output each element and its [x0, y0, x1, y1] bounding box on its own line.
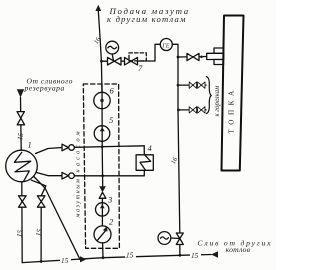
- wire bottom main: [22, 255, 211, 263]
- gauge G2 wave: [160, 237, 168, 239]
- svg-text:к другим котлам: к другим котлам: [107, 14, 187, 24]
- wire branch A: [178, 84, 206, 86]
- arrow discharge up: [95, 5, 101, 11]
- svg-text:2: 2: [109, 217, 114, 227]
- arrow bottom right-pointing: [80, 256, 87, 262]
- svg-text:котлов: котлов: [226, 245, 251, 254]
- heat exchanger 4 bolt: [140, 155, 151, 170]
- svg-text:1: 1: [28, 140, 32, 150]
- node drain bottom: [179, 254, 182, 257]
- label 15 bottom mid: [125, 251, 136, 258]
- furnace TOPKA: [222, 16, 244, 171]
- brace burners: [206, 77, 211, 114]
- check valve CV2: [62, 172, 69, 179]
- valve V3 burner: [187, 53, 199, 60]
- flow element FE circle: [160, 39, 172, 51]
- node bypass bottom junction: [101, 174, 104, 177]
- svg-text:5: 5: [109, 115, 113, 125]
- valve V9 funnel line: [17, 112, 25, 125]
- svg-text:15: 15: [35, 228, 44, 237]
- node pump suction junction: [102, 256, 105, 259]
- heater U1 circle: [6, 150, 38, 182]
- gauge stub: [112, 54, 113, 61]
- check valve CV1: [62, 144, 69, 151]
- regulator box 7 dashed: [129, 53, 146, 61]
- svg-text:15: 15: [16, 132, 25, 141]
- node junction riser-branch: [100, 60, 103, 63]
- valve V4: [189, 82, 196, 88]
- svg-text:ТОПКА: ТОПКА: [228, 86, 236, 133]
- pump 5 arrow: [100, 127, 105, 131]
- label 15 bottom right: [190, 252, 201, 259]
- drain gauge stub: [171, 237, 180, 240]
- pump circle 5: [94, 126, 110, 142]
- gauge G2 circle: [158, 232, 171, 245]
- funnel from tank: [17, 89, 24, 97]
- svg-text:мазутным: мазутным: [75, 178, 82, 219]
- wire gauge-valve branch: [101, 60, 155, 62]
- svg-text:15: 15: [15, 229, 24, 238]
- wire bypass bottom: [37, 173, 63, 176]
- pump circle 3: [96, 203, 109, 216]
- wire pump2 suction: [102, 243, 104, 258]
- valve V11: [37, 196, 45, 207]
- svg-text:15: 15: [191, 252, 199, 260]
- svg-text:4: 4: [148, 143, 153, 153]
- valve V2: [125, 57, 138, 65]
- svg-text:15: 15: [61, 257, 69, 265]
- valve V8 drain vertical: [176, 233, 183, 245]
- svg-text:насосом: насосом: [75, 128, 82, 172]
- valve V7: [198, 107, 205, 113]
- meter circle 6: [94, 92, 110, 108]
- svg-text:резервуара: резервуара: [24, 84, 65, 93]
- gauge G1 wave: [108, 46, 117, 49]
- valve V10: [19, 196, 27, 207]
- heat exchanger 4 stubs: [143, 146, 145, 155]
- wire to burner: [178, 56, 207, 59]
- check valve CV3: [99, 186, 106, 192]
- meter 6 dot: [100, 99, 103, 102]
- heat exchanger 4 box: [136, 155, 153, 171]
- svg-text:7: 7: [138, 63, 143, 73]
- wire FE loop down: [172, 44, 178, 57]
- valve V5: [198, 82, 205, 88]
- wire drain vertical bottom: [179, 245, 181, 256]
- wire branch B: [178, 109, 206, 111]
- valve V1: [108, 57, 122, 65]
- node left drain junction: [40, 260, 43, 263]
- wire 5-down: [101, 147, 104, 187]
- svg-text:15: 15: [126, 252, 134, 260]
- arrow drain left-pointing: [211, 251, 218, 258]
- wire funnel line: [20, 98, 23, 151]
- wire right vertical: [178, 57, 180, 233]
- wire long diagonal suction: [34, 177, 80, 260]
- heater U1 coil zigzag: [14, 152, 30, 181]
- svg-text:к горелкам: к горелкам: [214, 85, 221, 117]
- node bypass top junction: [101, 145, 104, 148]
- pump 3 arrow: [100, 204, 105, 208]
- dashed pump-house box: [83, 84, 119, 248]
- node branch A: [177, 84, 180, 87]
- node FE junction: [177, 56, 180, 59]
- gauge G1 circle: [106, 41, 119, 54]
- wire FE loop up: [155, 44, 160, 61]
- wire cv3-pump3: [101, 198, 103, 226]
- node burner stub: [200, 56, 203, 59]
- label 15 bottom left: [60, 257, 71, 264]
- burner B1: [214, 48, 224, 53]
- node branch B: [177, 109, 180, 112]
- svg-text:16: 16: [93, 36, 103, 46]
- pump 2 arrow: [98, 230, 107, 240]
- wire main riser top: [98, 11, 102, 93]
- wire heater left drain: [21, 182, 23, 263]
- svg-text:ГЕ: ГЕ: [161, 42, 170, 49]
- valve V6: [189, 107, 196, 113]
- pump circle 2: [94, 226, 111, 243]
- wire bypass top: [36, 148, 63, 154]
- svg-text:3: 3: [107, 195, 112, 205]
- svg-text:6: 6: [110, 86, 115, 96]
- wire riser in box: [101, 84, 103, 147]
- wire heater second drain: [31, 180, 46, 262]
